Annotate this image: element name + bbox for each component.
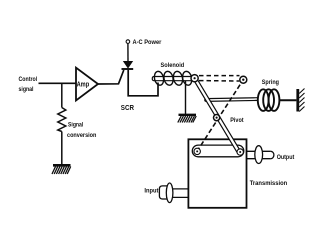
input shaft xyxy=(159,183,188,203)
scissor beam (dashed, from top-right pivot to lower-left) xyxy=(197,80,243,151)
svg-text:Output: Output xyxy=(277,154,295,161)
wire SCR cathode to solenoid coil xyxy=(128,70,158,96)
node control-signal label xyxy=(19,76,38,93)
dashed rod alternate position (upper) xyxy=(199,75,240,77)
output shaft xyxy=(246,146,273,164)
resistor signal conversion xyxy=(58,108,66,132)
lever bar inside box xyxy=(192,145,244,157)
pivot top-right (dashed position) xyxy=(240,76,247,83)
svg-text:conversion: conversion xyxy=(67,132,96,139)
op-amp U1 Amp xyxy=(76,68,98,101)
scissor beam (solid, from top-left pivot to lower-right) xyxy=(193,77,240,152)
dashed rod alternate position (lower) xyxy=(199,80,239,82)
SCR (thyristor) xyxy=(122,61,134,69)
center pivot xyxy=(214,115,220,121)
svg-text:Input: Input xyxy=(144,188,159,195)
wire resistor to ground xyxy=(61,132,63,165)
lever left pivot xyxy=(194,148,200,154)
svg-text:Pivot: Pivot xyxy=(230,117,244,124)
svg-text:Spring: Spring xyxy=(262,79,279,86)
svg-text:Signal: Signal xyxy=(68,121,83,128)
wall anchor xyxy=(296,89,304,112)
wire control signal to amp xyxy=(39,82,77,84)
lever right pivot xyxy=(237,149,243,155)
terminal A-C power xyxy=(126,40,130,44)
pivot top-left (solenoid rod end) xyxy=(191,75,198,82)
ground below solenoid support xyxy=(178,115,196,123)
label signal conversion xyxy=(67,121,96,139)
svg-text:Transmission: Transmission xyxy=(250,180,288,187)
svg-text:Control: Control xyxy=(19,76,38,83)
bar to spring xyxy=(205,98,258,102)
wire amp output to SCR gate xyxy=(98,70,124,84)
ground xyxy=(52,165,71,174)
svg-text:signal: signal xyxy=(19,86,34,93)
svg-text:Amp: Amp xyxy=(77,80,90,89)
wire spring to wall xyxy=(280,99,297,101)
transmission box xyxy=(188,139,246,208)
solenoid frame support xyxy=(185,81,187,114)
svg-text:Solenoid: Solenoid xyxy=(161,62,185,69)
svg-text:SCR: SCR xyxy=(121,105,134,112)
svg-text:A-C Power: A-C Power xyxy=(133,39,162,46)
wire junction down to resistor xyxy=(61,83,63,107)
spring coil xyxy=(258,89,280,111)
solenoid coil L1 xyxy=(153,71,193,87)
solenoid plunger rod xyxy=(152,77,194,81)
wire A-C power to SCR anode xyxy=(127,44,129,62)
